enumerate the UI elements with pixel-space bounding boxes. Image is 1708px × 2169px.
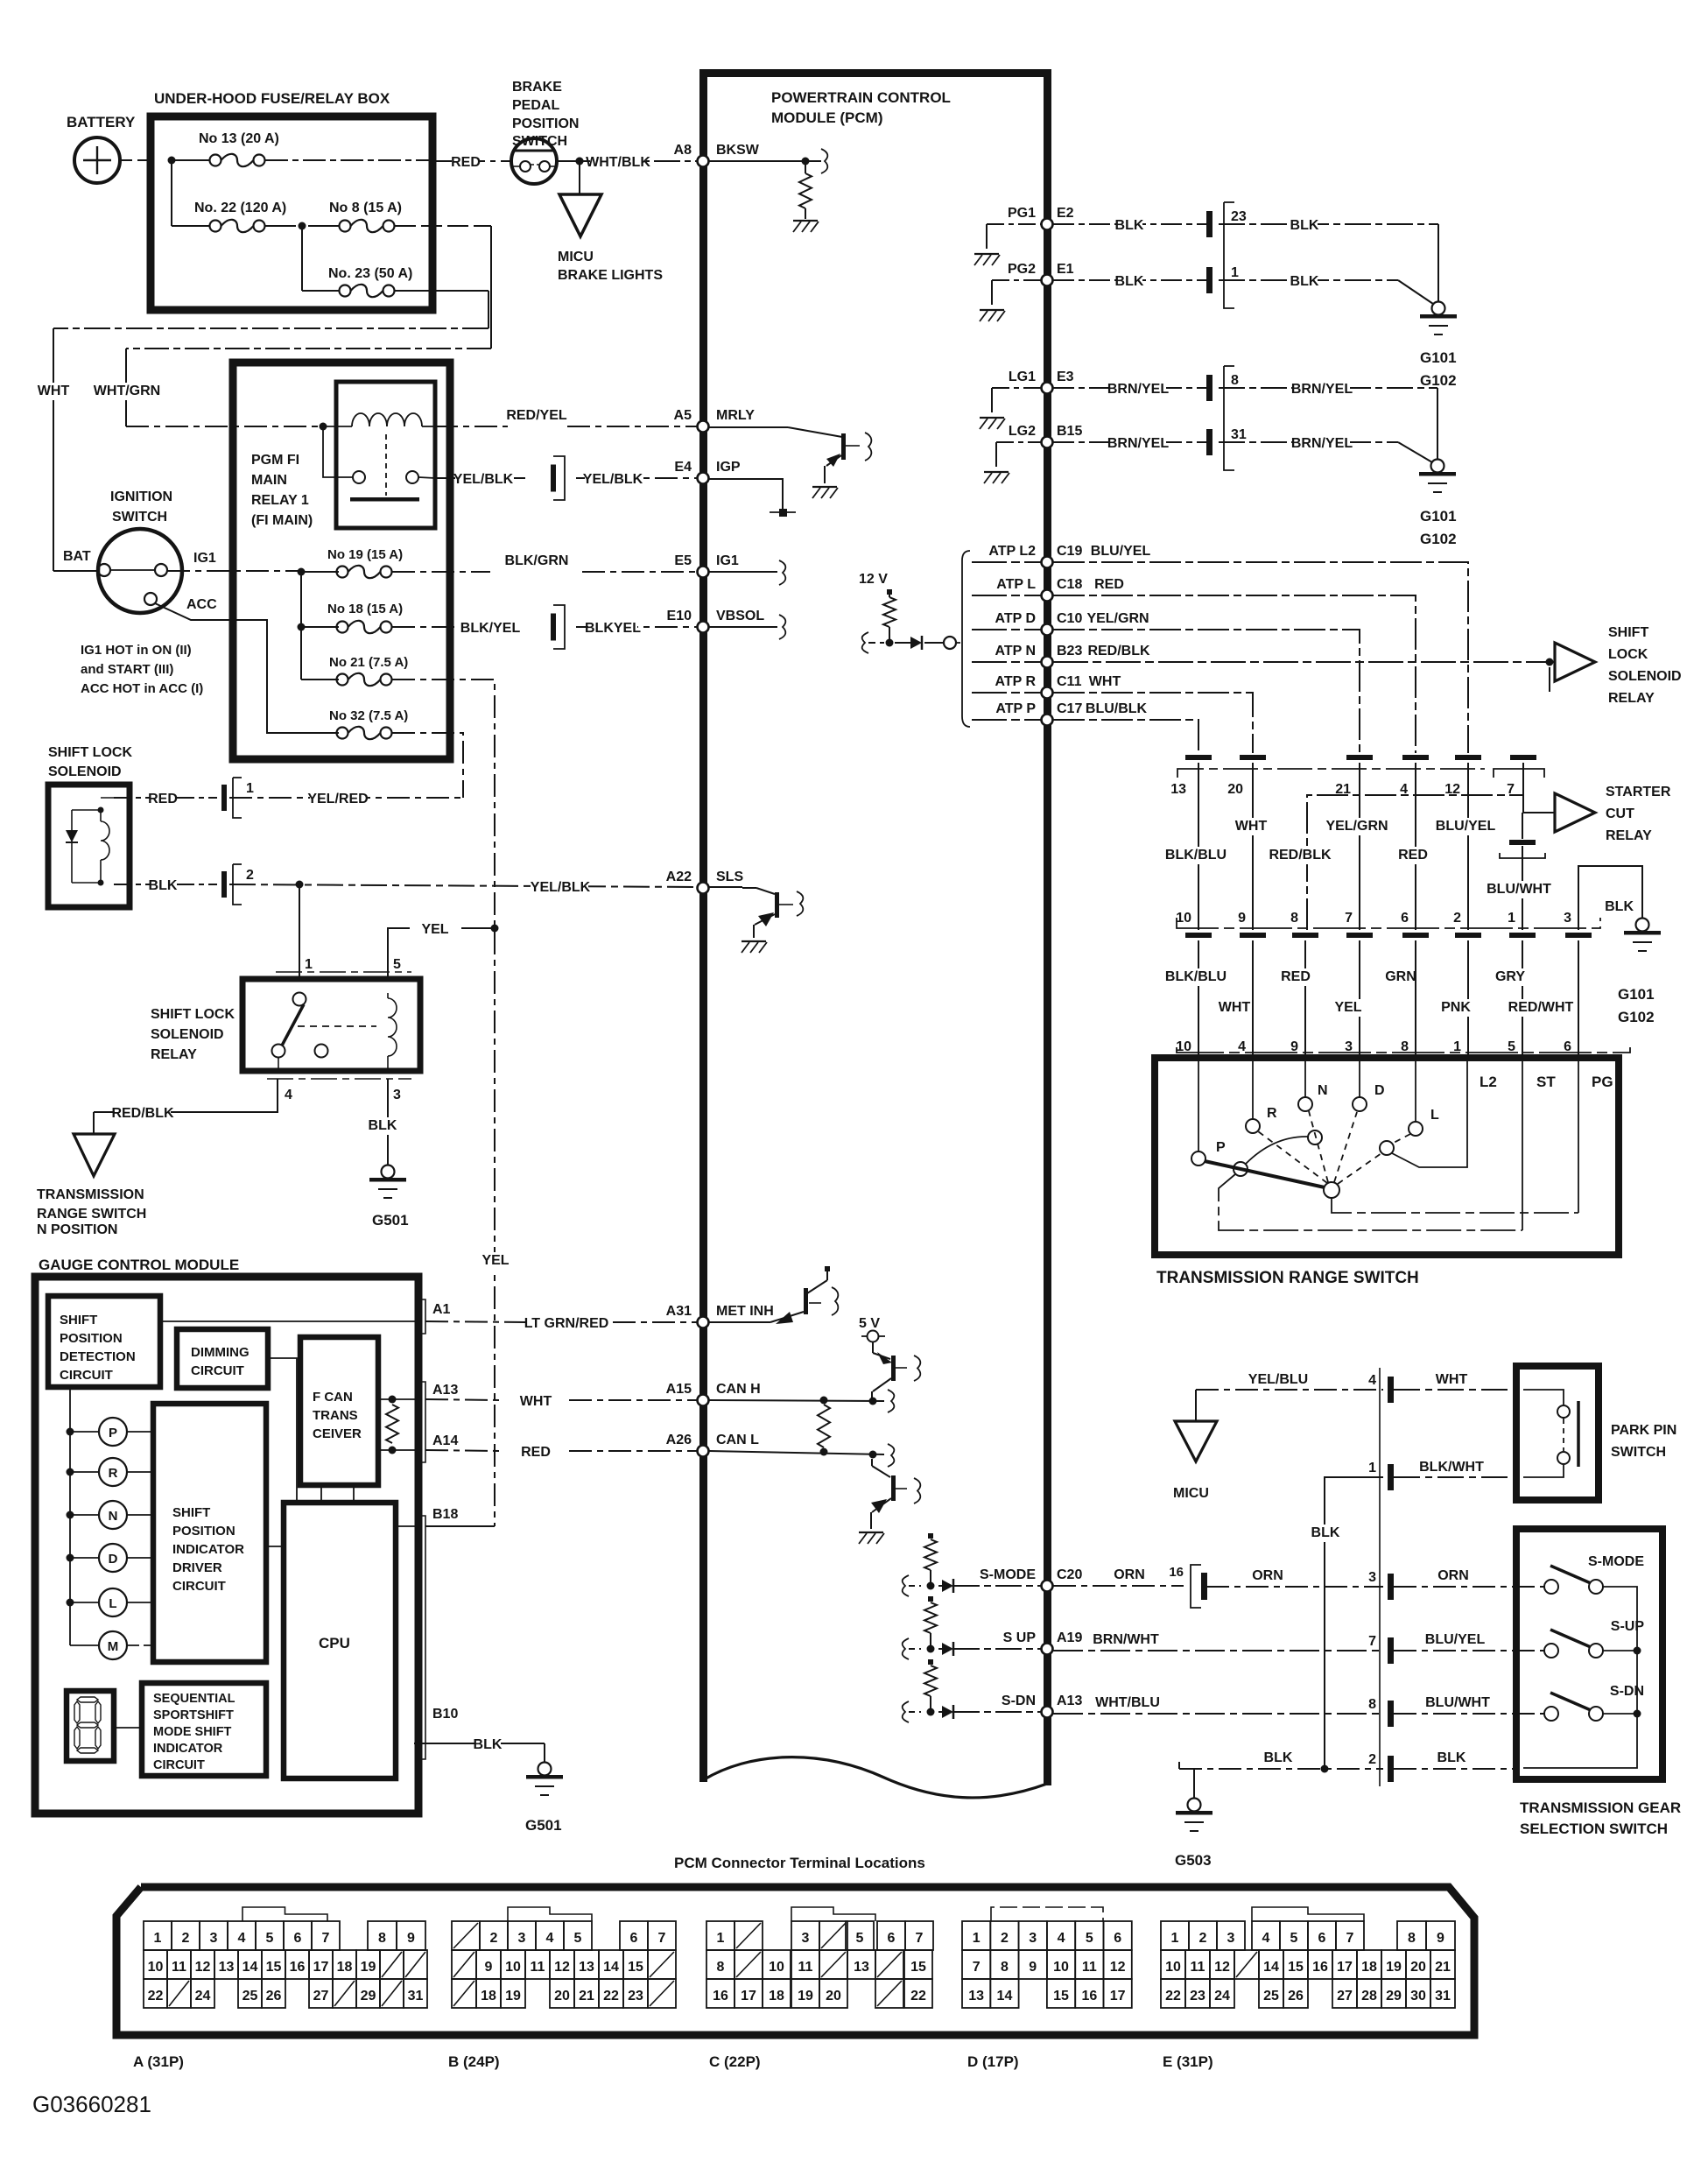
wire relay pin 3 BLK to G501 (387, 1079, 389, 1165)
svg-text:17: 17 (741, 1989, 756, 2004)
svg-text:5: 5 (574, 1931, 582, 1946)
svg-text:3: 3 (1029, 1931, 1037, 1946)
svg-text:28: 28 (1361, 1989, 1377, 2004)
transmission range switch N position arrow (93, 1112, 95, 1134)
MICU brake lights arrow (579, 161, 580, 194)
svg-text:SOLENOID: SOLENOID (48, 764, 122, 779)
wire E1 BLK to connector 1 (1053, 279, 1206, 281)
svg-text:VBSOL: VBSOL (716, 609, 764, 623)
svg-text:E4: E4 (674, 460, 692, 475)
svg-text:BLK: BLK (1264, 1750, 1293, 1765)
svg-text:16: 16 (1169, 1565, 1184, 1580)
svg-text:B18: B18 (432, 1507, 458, 1522)
contact P (1191, 1151, 1205, 1165)
CAN L lower transistor and ground (871, 1459, 873, 1466)
svg-text:ATP N: ATP N (995, 644, 1036, 658)
starter cut relay connector (1522, 813, 1523, 839)
svg-text:C11: C11 (1057, 674, 1082, 689)
wire ORN to S-MODE switch (1394, 1586, 1544, 1588)
svg-text:SLS: SLS (716, 870, 743, 884)
selector L2-side contact (1380, 1141, 1394, 1155)
svg-text:6: 6 (1114, 1931, 1121, 1946)
lamp M (70, 1644, 99, 1646)
YEL junction on fuse21 line (491, 925, 499, 933)
svg-text:BLK/GRN: BLK/GRN (505, 553, 569, 568)
wire RED/YEL coil to A5 (435, 426, 508, 427)
svg-text:SWITCH: SWITCH (512, 134, 567, 149)
svg-text:4: 4 (1368, 1373, 1376, 1388)
wires into switch (1198, 1061, 1199, 1151)
brake pedal position switch (511, 138, 557, 184)
svg-text:BLK: BLK (369, 1118, 397, 1133)
svg-text:S-DN: S-DN (1002, 1694, 1036, 1708)
svg-text:12 V: 12 V (859, 572, 888, 587)
wire BLK row2 pin 3 to ground (1578, 866, 1642, 930)
relay contact and blade (293, 993, 306, 1006)
svg-text:16: 16 (1081, 1989, 1097, 2004)
svg-text:C19: C19 (1057, 544, 1082, 559)
dimming circuit wire (268, 1358, 297, 1503)
MRLY driver transistor (709, 426, 788, 428)
svg-text:1: 1 (1368, 1461, 1376, 1475)
wire B15 BRN/YEL to connector 31 (1053, 441, 1206, 443)
connector pin 7 (1388, 1637, 1394, 1664)
wire fuse 8 to WHT/GRN run (395, 225, 491, 227)
selector arc contact (1234, 1162, 1248, 1176)
svg-text:A1: A1 (432, 1302, 451, 1317)
wire 21 YEL/GRN to row2 pin 7 (1359, 763, 1360, 930)
S-MODE input resistor and diode (928, 1533, 933, 1539)
svg-text:15: 15 (628, 1960, 643, 1975)
svg-text:E1: E1 (1057, 262, 1074, 277)
park pin switch contacts (1523, 1390, 1564, 1405)
svg-text:IGNITION: IGNITION (110, 489, 172, 504)
svg-text:3: 3 (1564, 911, 1571, 926)
ground G101 G102 lower (1431, 460, 1444, 473)
svg-text:3: 3 (1227, 1931, 1235, 1946)
svg-text:No 19 (15 A): No 19 (15 A) (327, 547, 403, 562)
svg-text:16: 16 (713, 1989, 728, 2004)
solenoid internals: diode and coil (71, 810, 73, 883)
range switch connector bracket (1177, 1047, 1630, 1053)
solenoid connector pin 2 (221, 871, 227, 898)
dimming circuit box (177, 1329, 268, 1388)
svg-text:BLK: BLK (1290, 274, 1319, 289)
shift lock solenoid box (48, 785, 130, 907)
svg-text:BLK/BLU: BLK/BLU (1165, 848, 1227, 863)
connector YEL/BLK (551, 465, 556, 492)
svg-text:SOLENOID: SOLENOID (1608, 669, 1682, 684)
wire fuse 22 node down to fuse 23 (301, 226, 303, 291)
svg-text:P: P (1216, 1140, 1226, 1155)
wire RED to connector 1 (101, 797, 130, 799)
wire YEL/BLK to A22 SLS (229, 884, 698, 887)
svg-text:SHIFT LOCK: SHIFT LOCK (48, 745, 132, 760)
PG2 internal ground (992, 279, 1042, 281)
svg-text:10: 10 (148, 1960, 164, 1975)
svg-text:20: 20 (1227, 782, 1243, 797)
svg-text:BLK: BLK (1115, 218, 1144, 233)
svg-text:YEL/BLK: YEL/BLK (453, 472, 514, 487)
svg-text:WHT: WHT (1235, 819, 1268, 834)
wire BLK/WHT (1394, 1476, 1516, 1478)
wire relay pin 4 RED/BLK to arrow (278, 1057, 279, 1071)
svg-text:D: D (109, 1552, 118, 1567)
powertrain control module (PCM) box (699, 69, 1049, 77)
svg-text:S-UP: S-UP (1611, 1619, 1645, 1634)
svg-text:21: 21 (579, 1989, 594, 2004)
wire 1 BLK diagonal to ground (1219, 279, 1398, 281)
svg-text:20: 20 (1410, 1960, 1426, 1975)
svg-text:and START (III): and START (III) (81, 662, 173, 677)
svg-text:LG2: LG2 (1009, 424, 1036, 439)
under-hood fuse/relay box (151, 116, 432, 310)
svg-text:2: 2 (1453, 911, 1461, 926)
svg-text:P: P (109, 1426, 117, 1440)
svg-text:5: 5 (266, 1931, 274, 1946)
F CAN termination resistor (386, 1405, 398, 1443)
svg-text:WHT: WHT (520, 1394, 552, 1409)
svg-text:WHT: WHT (38, 384, 70, 398)
connector C (22P) grid (791, 1907, 875, 1921)
CAN H upper transistor (872, 1342, 874, 1353)
svg-text:14: 14 (997, 1989, 1013, 2004)
svg-text:C17: C17 (1057, 701, 1082, 716)
svg-text:BLU/WHT: BLU/WHT (1425, 1695, 1490, 1710)
svg-text:5: 5 (856, 1931, 864, 1946)
connector B (24P) grid (508, 1907, 592, 1921)
svg-text:N: N (1318, 1083, 1328, 1098)
svg-text:17: 17 (1337, 1960, 1353, 1975)
svg-text:SHIFT LOCK: SHIFT LOCK (151, 1007, 235, 1022)
shift position detection circuit box (48, 1296, 160, 1387)
wire RED/BLK row2 pin 8 to starter cut relay (1307, 795, 1523, 930)
svg-text:PGM FI: PGM FI (251, 453, 299, 468)
svg-text:PG2: PG2 (1008, 262, 1036, 277)
svg-text:ATP L: ATP L (996, 577, 1036, 592)
svg-text:6: 6 (888, 1931, 896, 1946)
svg-text:YEL: YEL (481, 1253, 509, 1268)
svg-text:G501: G501 (525, 1817, 562, 1834)
svg-text:B23: B23 (1057, 644, 1082, 658)
svg-text:C10: C10 (1057, 611, 1082, 626)
svg-text:1: 1 (1231, 265, 1239, 280)
connector row 2 bars (1185, 933, 1212, 938)
svg-text:INDICATOR: INDICATOR (153, 1742, 223, 1756)
svg-text:23: 23 (1231, 209, 1247, 224)
wire WHT/BLU from A13 to pin 8 (1053, 1713, 1383, 1715)
svg-text:PCM Connector Terminal Locatio: PCM Connector Terminal Locations (674, 1855, 925, 1871)
svg-text:TRANSMISSION RANGE SWITCH: TRANSMISSION RANGE SWITCH (1156, 1269, 1419, 1287)
PGM FI main relay 1 box (233, 363, 450, 759)
svg-text:6: 6 (630, 1931, 638, 1946)
svg-text:9: 9 (485, 1960, 493, 1975)
svg-text:SELECTION SWITCH: SELECTION SWITCH (1520, 1820, 1668, 1837)
connector pin 8 (1388, 1701, 1394, 1727)
svg-text:1: 1 (154, 1931, 162, 1946)
starter cut relay arrow (1555, 793, 1595, 832)
svg-text:24: 24 (1214, 1989, 1230, 2004)
svg-text:18: 18 (337, 1960, 353, 1975)
svg-text:YEL/BLK: YEL/BLK (583, 472, 643, 487)
svg-text:18: 18 (769, 1989, 784, 2004)
svg-text:C (22P): C (22P) (709, 2053, 761, 2070)
svg-text:LOCK: LOCK (1608, 647, 1648, 662)
wire WHT to park pin switch (1394, 1389, 1516, 1391)
svg-text:BRN/YEL: BRN/YEL (1291, 436, 1353, 451)
svg-text:9: 9 (1238, 911, 1246, 926)
svg-text:1: 1 (1508, 911, 1515, 926)
svg-text:23: 23 (1190, 1989, 1205, 2004)
ignition switch (98, 529, 182, 613)
svg-text:14: 14 (1263, 1960, 1279, 1975)
wire 12 BLU/YEL to row2 pin 2 (1467, 763, 1469, 930)
svg-text:SWITCH: SWITCH (112, 510, 167, 525)
svg-text:A13: A13 (1057, 1694, 1082, 1708)
svg-text:N POSITION: N POSITION (37, 1222, 117, 1237)
wire PG from pivot (1332, 1198, 1578, 1213)
svg-text:19: 19 (505, 1989, 521, 2004)
svg-text:LT GRN/RED: LT GRN/RED (524, 1316, 609, 1331)
svg-text:10: 10 (505, 1960, 521, 1975)
svg-text:SOLENOID: SOLENOID (151, 1027, 224, 1042)
lamp L (67, 1599, 74, 1607)
relay connector bracket top (276, 971, 411, 973)
ground G101 G102 right (1636, 919, 1649, 932)
ground G501 bottom (538, 1763, 552, 1776)
svg-text:PARK PIN: PARK PIN (1611, 1423, 1676, 1438)
svg-text:BLK: BLK (1437, 1750, 1466, 1765)
svg-text:N: N (109, 1509, 118, 1524)
svg-text:4: 4 (1058, 1931, 1065, 1946)
svg-text:No 8 (15 A): No 8 (15 A) (329, 201, 402, 215)
wire CAN L internal (709, 1451, 884, 1454)
svg-text:IGP: IGP (716, 460, 741, 475)
gear selection connector column (1379, 1368, 1381, 1786)
svg-text:1: 1 (305, 957, 313, 972)
svg-text:A31: A31 (666, 1304, 692, 1319)
connector E (31P) grid (1252, 1907, 1364, 1921)
svg-text:8: 8 (1001, 1960, 1009, 1975)
connector pin 4 (1388, 1377, 1394, 1403)
svg-text:13: 13 (1170, 782, 1186, 797)
svg-text:16: 16 (1312, 1960, 1328, 1975)
wire BLK down to G503 junction (1325, 1477, 1383, 1769)
svg-text:18: 18 (1361, 1960, 1377, 1975)
svg-text:30: 30 (1410, 1989, 1426, 2004)
relay coil (388, 998, 397, 1056)
svg-text:G101: G101 (1618, 986, 1655, 1003)
wire BLU/WHT to S-DN switch (1394, 1713, 1544, 1715)
svg-text:20: 20 (826, 1989, 841, 2004)
contact N (1298, 1097, 1312, 1111)
node battery feed (168, 157, 176, 165)
svg-text:8: 8 (378, 1931, 386, 1946)
connector A (31P) grid (242, 1907, 327, 1921)
svg-text:No 18 (15 A): No 18 (15 A) (327, 602, 403, 616)
svg-text:2: 2 (490, 1931, 498, 1946)
svg-text:BLK: BLK (474, 1737, 503, 1752)
svg-text:BLK: BLK (1311, 1525, 1340, 1540)
connector pin 3 (1388, 1574, 1394, 1600)
park pin switch box (1516, 1366, 1599, 1500)
svg-text:DRIVER: DRIVER (172, 1560, 222, 1575)
svg-text:12: 12 (1110, 1960, 1126, 1975)
shift lock solenoid relay arrow (1555, 643, 1595, 681)
svg-text:23: 23 (628, 1989, 643, 2004)
svg-text:7: 7 (322, 1931, 330, 1946)
solenoid connector pin 1 (221, 785, 227, 811)
svg-text:9: 9 (1437, 1931, 1444, 1946)
svg-text:BATTERY: BATTERY (67, 114, 136, 130)
relay contacts (323, 426, 353, 477)
svg-text:9: 9 (1029, 1960, 1037, 1975)
svg-text:MICU: MICU (1173, 1486, 1209, 1501)
svg-text:RED/YEL: RED/YEL (506, 408, 567, 423)
svg-text:12: 12 (554, 1960, 570, 1975)
IG1 internal stub (709, 571, 777, 573)
svg-text:C20: C20 (1057, 1567, 1082, 1582)
svg-text:BRN/YEL: BRN/YEL (1107, 382, 1169, 397)
svg-text:11: 11 (1082, 1960, 1097, 1975)
svg-text:CIRCUIT: CIRCUIT (191, 1363, 244, 1378)
svg-text:31: 31 (1231, 427, 1247, 442)
svg-text:A8: A8 (674, 143, 692, 158)
wire relay pin 1 down (299, 884, 300, 979)
svg-text:24: 24 (195, 1989, 211, 2004)
svg-text:11: 11 (172, 1960, 186, 1975)
ATP group bracket (962, 551, 970, 727)
svg-text:CUT: CUT (1606, 806, 1634, 821)
CAN termination resistor (818, 1405, 830, 1447)
svg-text:7: 7 (1346, 1931, 1354, 1946)
svg-text:BLK: BLK (1290, 218, 1319, 233)
svg-text:STARTER: STARTER (1606, 785, 1671, 799)
driver circuit to CPU wire (266, 1546, 284, 1547)
transmission range switch box (1155, 1058, 1619, 1255)
svg-text:3: 3 (393, 1088, 401, 1102)
wire fuse box to brake switch, RED (434, 160, 511, 162)
svg-text:3: 3 (1368, 1570, 1376, 1585)
contact R (1246, 1119, 1260, 1133)
svg-text:WHT/GRN: WHT/GRN (94, 384, 160, 398)
svg-text:16: 16 (290, 1960, 306, 1975)
svg-text:CAN L: CAN L (716, 1433, 759, 1447)
wire fuse 21 YEL down to B18 (392, 680, 495, 1526)
switch common wire (1523, 1587, 1637, 1768)
svg-text:SHIFT: SHIFT (172, 1505, 210, 1520)
battery (74, 137, 120, 183)
svg-text:RED/BLK: RED/BLK (1087, 644, 1150, 658)
svg-text:DIMMING: DIMMING (191, 1345, 250, 1360)
svg-text:INDICATOR: INDICATOR (172, 1542, 244, 1557)
node fuse 22 output (299, 222, 306, 230)
svg-text:F CAN: F CAN (313, 1390, 353, 1405)
svg-text:YEL/BLK: YEL/BLK (531, 880, 591, 895)
svg-text:D (17P): D (17P) (967, 2053, 1019, 2070)
svg-text:POSITION: POSITION (60, 1331, 123, 1346)
svg-text:4: 4 (285, 1088, 292, 1102)
wire BLK/YEL to E10 (392, 626, 455, 628)
wire BLU/WHT to row2 pin 1 (1522, 846, 1523, 930)
svg-text:YEL/RED: YEL/RED (307, 792, 368, 806)
svg-text:BLU/YEL: BLU/YEL (1436, 819, 1496, 834)
svg-text:MODE SHIFT: MODE SHIFT (153, 1725, 232, 1739)
gauge connector brackets (418, 1299, 425, 1334)
svg-text:RED: RED (451, 155, 481, 170)
svg-text:6: 6 (294, 1931, 302, 1946)
svg-text:25: 25 (1263, 1989, 1279, 2004)
svg-text:PNK: PNK (1441, 1000, 1471, 1015)
svg-text:1: 1 (973, 1931, 981, 1946)
svg-text:RED: RED (148, 792, 178, 806)
svg-text:BAT: BAT (63, 549, 91, 564)
svg-text:LG1: LG1 (1009, 370, 1036, 384)
wire battery to fuse box (120, 159, 147, 161)
svg-text:L2: L2 (1480, 1074, 1497, 1090)
lamp R (67, 1468, 74, 1476)
svg-text:RELAY: RELAY (1606, 828, 1652, 843)
lamp P (67, 1428, 74, 1436)
svg-text:BRAKE: BRAKE (512, 80, 562, 95)
svg-text:R: R (109, 1466, 118, 1481)
svg-text:G102: G102 (1618, 1009, 1655, 1025)
svg-text:B10: B10 (432, 1707, 458, 1722)
svg-text:25: 25 (242, 1989, 258, 2004)
connector D (17P) grid (991, 1907, 1103, 1921)
svg-text:YEL: YEL (421, 922, 448, 937)
svg-text:22: 22 (1165, 1989, 1181, 2004)
connector pins 23 and 1 (1206, 211, 1212, 237)
svg-text:G03660281: G03660281 (32, 2091, 151, 2117)
svg-text:19: 19 (361, 1960, 376, 1975)
svg-text:RELAY 1: RELAY 1 (251, 493, 309, 508)
transmission gear selection switch box (1516, 1529, 1662, 1779)
wire 8 BRN/YEL to ground (1219, 387, 1437, 389)
svg-text:10: 10 (1053, 1960, 1069, 1975)
svg-text:D: D (1374, 1083, 1385, 1098)
svg-text:YEL: YEL (1334, 1000, 1361, 1015)
svg-text:27: 27 (313, 1989, 329, 2004)
wire C19 BLU/YEL (1053, 562, 1468, 753)
svg-text:B (24P): B (24P) (448, 2053, 500, 2070)
wire 20 WHT to row2 pin 9 (1252, 763, 1254, 930)
YEL label on fuse21 line (482, 1252, 509, 1270)
svg-text:1: 1 (246, 781, 254, 796)
svg-text:G501: G501 (372, 1212, 409, 1229)
BKSW pull-down resistor and ground (709, 160, 821, 162)
VBSOL internal stub (709, 626, 777, 628)
svg-text:No 21 (7.5 A): No 21 (7.5 A) (329, 655, 408, 670)
svg-text:2: 2 (1001, 1931, 1009, 1946)
wire ACC to fuse 32 (155, 603, 339, 733)
svg-text:7: 7 (973, 1960, 981, 1975)
svg-text:CPU: CPU (319, 1635, 350, 1651)
svg-text:31: 31 (1435, 1989, 1451, 2004)
svg-text:11: 11 (1191, 1960, 1205, 1975)
wire YEL/BLK contact to E4 (435, 477, 525, 479)
wire to fuse 22 (171, 160, 172, 226)
svg-text:RED: RED (1094, 577, 1124, 592)
connector panel outline (116, 1887, 1474, 2035)
svg-text:PG1: PG1 (1008, 206, 1036, 221)
svg-text:BLU/WHT: BLU/WHT (1487, 882, 1551, 897)
svg-text:ORN: ORN (1437, 1568, 1469, 1583)
svg-text:YEL/GRN: YEL/GRN (1325, 819, 1388, 834)
svg-text:11: 11 (798, 1960, 813, 1975)
svg-text:R: R (1267, 1106, 1277, 1121)
connector pin 1 (1388, 1464, 1394, 1490)
